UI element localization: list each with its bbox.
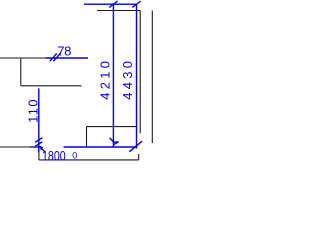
svg-text:110: 110 xyxy=(26,99,41,123)
step horizontal y126.6 xyxy=(87,126,137,128)
svg-text:1800: 1800 xyxy=(42,148,66,164)
bottom dim line right piece xyxy=(64,146,137,148)
tick at V2 bottom junction xyxy=(129,141,142,152)
svg-text:0: 0 xyxy=(72,151,77,161)
V1 junction leader xyxy=(110,138,114,142)
V1 junction tick xyxy=(113,142,118,145)
wall left vertical xyxy=(139,11,141,134)
dim vertical 4430 xyxy=(136,4,138,148)
horizontal edge y85.8 xyxy=(21,85,82,87)
110 tick b xyxy=(35,142,42,146)
leader slash xyxy=(42,148,46,152)
wall right vertical xyxy=(151,11,153,144)
110 tick a xyxy=(35,138,42,142)
tick top at V2 xyxy=(132,1,140,7)
base step vertical x38.9 xyxy=(38,147,40,160)
svg-text:78: 78 xyxy=(57,44,71,59)
dim vertical 4210 xyxy=(112,4,114,147)
78 tick b xyxy=(53,53,60,61)
tick top at V1 xyxy=(109,1,117,7)
bottom right stub x138.7 xyxy=(138,154,140,160)
bottom edge y159.9 xyxy=(39,159,139,161)
vertical at x20.8 xyxy=(20,58,22,86)
V1 junction stub xyxy=(113,141,118,143)
CAD dimension drawing xyxy=(0,0,158,168)
top dimension line xyxy=(84,3,137,5)
upper-left edge at y58 xyxy=(0,57,46,59)
78 dimension line xyxy=(46,57,89,59)
bottom dim line left piece xyxy=(31,146,42,148)
step vertical x86.5 xyxy=(86,127,88,147)
outline top horizontal edge xyxy=(97,10,140,12)
base top edge y147 xyxy=(0,146,39,148)
arrow head xyxy=(39,146,44,150)
78 tick a xyxy=(50,53,57,61)
dim vertical 110 xyxy=(38,88,40,152)
